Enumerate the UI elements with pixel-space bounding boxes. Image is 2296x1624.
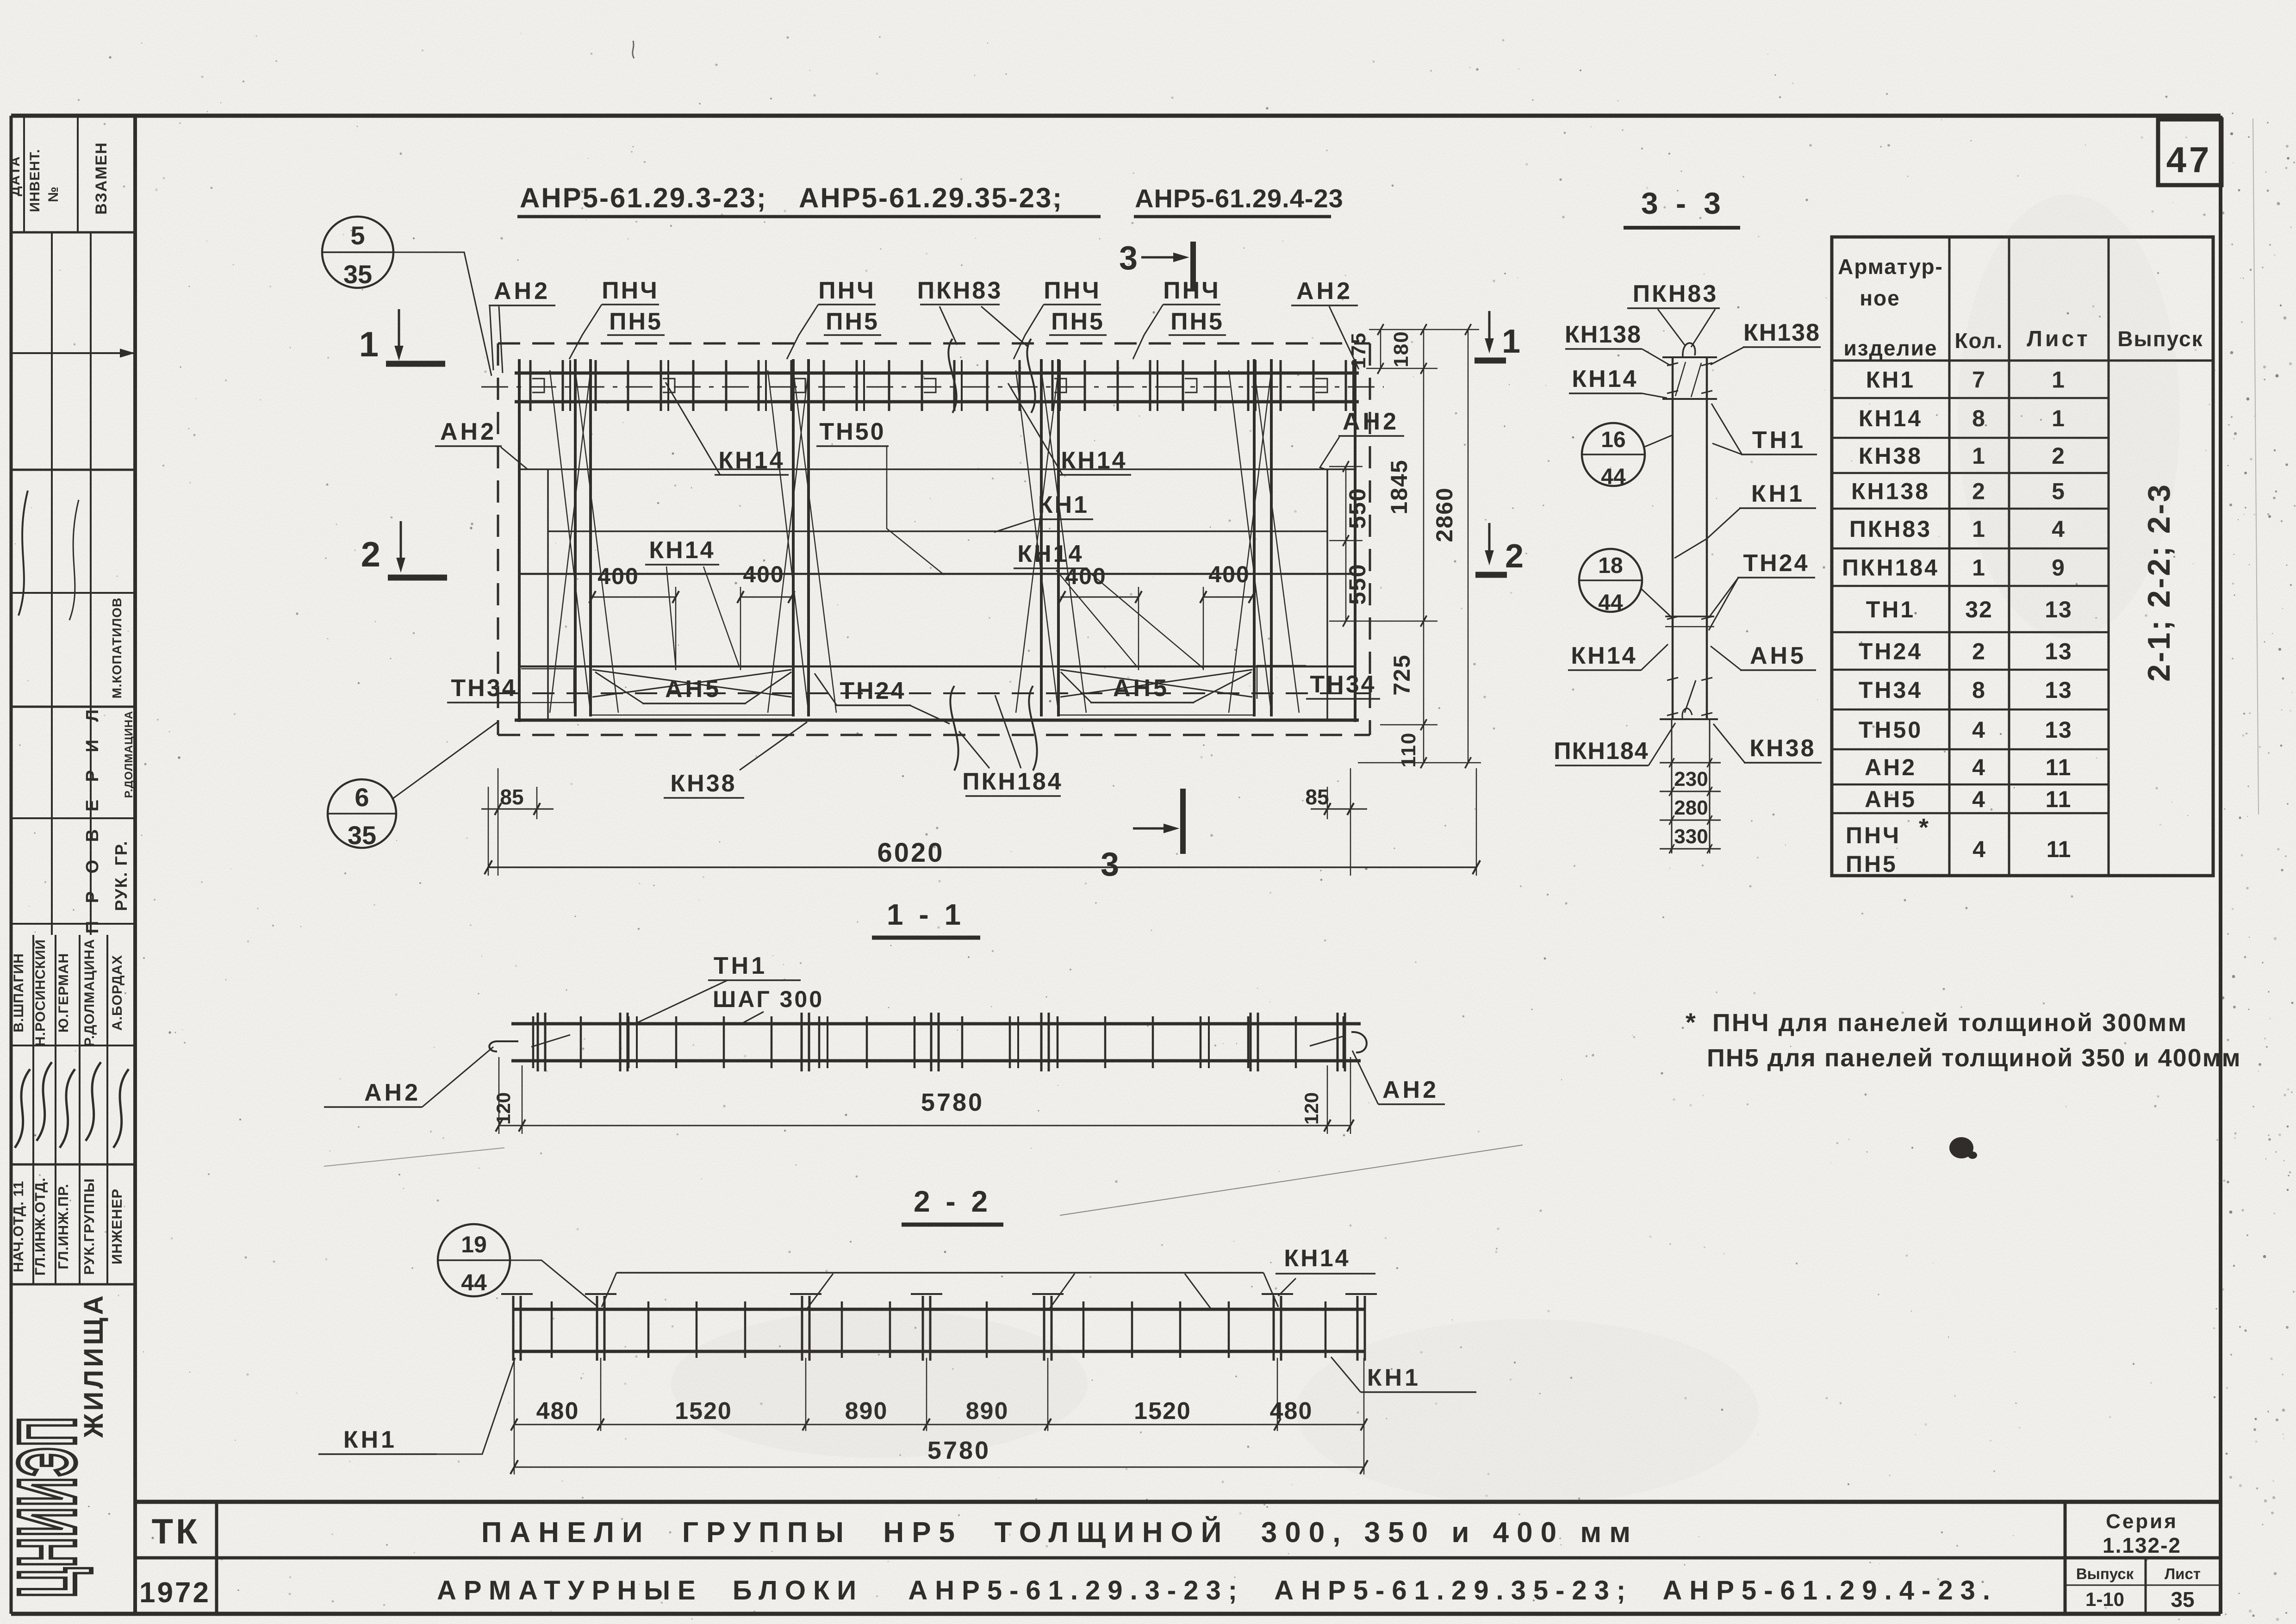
- 3-3 small side ticks: [1667, 363, 1678, 366]
- dim 6020: [488, 866, 1476, 868]
- right margin thin bar: [1326, 469, 1328, 720]
- table column lines: [1948, 237, 1951, 876]
- sheet frame right border: [2219, 116, 2222, 1614]
- 2-2 dim row 1: [514, 1358, 515, 1431]
- callout 5/35 leader: [394, 252, 492, 376]
- 3-3 callout circle 16/44: [1582, 423, 1645, 486]
- 1-1 rails: [511, 1022, 1361, 1026]
- 1-1 dims: [498, 1057, 500, 1134]
- title block serial cell divider: [2064, 1502, 2067, 1614]
- 2-2 roof line KN14: [616, 1272, 1263, 1274]
- callout circle 5/35: [322, 217, 393, 288]
- plan horizontal chord y1240: [519, 573, 1355, 575]
- callout 6/35 leader: [392, 721, 499, 799]
- sidebar header dividers: [23, 116, 25, 232]
- gray smudges: [671, 1310, 1088, 1458]
- right dim tick lines: [1369, 329, 1479, 330]
- window mullion left-right pair: [792, 359, 795, 716]
- callout circle 6/35: [328, 779, 396, 848]
- window bottom close line right: [1058, 715, 1254, 716]
- title block vypusk list divider: [2145, 1558, 2147, 1614]
- title block top line: [135, 1500, 2221, 1504]
- sheet frame left outer border: [10, 116, 13, 1614]
- 2-2 dim row 2 5780: [514, 1431, 515, 1475]
- 1-1 right hook: [1351, 1032, 1367, 1052]
- plan dashed line y1498: [498, 692, 1370, 694]
- plan horizontal chord y1148: [548, 530, 1327, 532]
- window mullion left-left pair: [574, 359, 577, 716]
- 3-3 bottom dim ladder: [1671, 720, 1673, 853]
- right dim chain 180-1845-725-110 line: [1423, 330, 1425, 763]
- table outer rect: [1832, 237, 2213, 876]
- top band posts: [529, 360, 532, 411]
- section marker 2 right: [1488, 523, 1491, 558]
- table row lines: [1832, 397, 2109, 399]
- sidebar 5-column dividers for signature block: [32, 935, 34, 1284]
- plan horizontal chord y1014: [519, 468, 1355, 470]
- left margin heavy bar: [518, 359, 521, 722]
- plan horizontal chord y1440: [519, 666, 1355, 668]
- 2-2 double posts with caps: [512, 1296, 515, 1361]
- right margin heavy bar: [1354, 359, 1356, 722]
- panel outline dashed rect bottom: [498, 734, 1370, 736]
- top band upper rail: [515, 372, 1359, 375]
- ink blob artifact: [1949, 1137, 1973, 1158]
- 2-2 callout leader: [509, 1260, 598, 1307]
- content frame left border: [133, 116, 137, 1614]
- mullion brace diagonals: [575, 370, 618, 713]
- sheet number box 47: [2158, 119, 2221, 185]
- top band axis dash-dot line: [481, 386, 1384, 388]
- 2-2 posts: [551, 1301, 553, 1358]
- panel outline dashed rect top: [498, 342, 1370, 345]
- heading underline 2: [1134, 215, 1331, 218]
- window mullion right-right pair: [1253, 359, 1256, 716]
- scratch line artifact top right of 2-2: [1060, 1145, 1523, 1215]
- 3-3 bottom hooks: [1685, 680, 1696, 713]
- sidebar arrow at row line: [120, 349, 133, 357]
- 3-3 hatch top cell: [1675, 362, 1686, 396]
- section marker 1 right: [1488, 311, 1491, 346]
- sidebar mid column dividers: [51, 232, 53, 935]
- right dim 175 line: [1380, 330, 1381, 368]
- left margin thin bar: [547, 469, 549, 720]
- 2-2 rails: [514, 1308, 1364, 1311]
- 3-3 column right line: [1706, 357, 1708, 720]
- panel outline dashed left: [497, 343, 499, 735]
- plan bottom heavy chord: [515, 719, 1359, 722]
- small mark top: [633, 41, 634, 58]
- title block serial inner line: [2065, 1585, 2221, 1586]
- paper edge faint line right: [2253, 118, 2259, 815]
- window bottom close line left: [591, 715, 793, 716]
- title block TK divider: [215, 1502, 218, 1614]
- sidebar upper scribbles: [19, 491, 28, 616]
- 3-3 column caps: [1662, 356, 1717, 358]
- panel outline dashed right: [1369, 343, 1371, 735]
- paper noise overlay: [0, 0, 0, 0]
- squiggle break marks top band: [948, 339, 956, 413]
- 1-1 end double posts: [537, 1013, 539, 1071]
- right dim chain 2860 line: [1468, 330, 1469, 763]
- squiggle break marks bottom band: [950, 686, 958, 771]
- top band lower rail: [515, 400, 1359, 404]
- heading underline 1: [517, 215, 1101, 218]
- sidebar signatures scribbles: [15, 1069, 30, 1148]
- window X-cross left: [592, 670, 791, 697]
- sheet frame top border: [11, 114, 2221, 118]
- sidebar horizontal lines: [11, 231, 135, 234]
- top band staples: [532, 379, 544, 392]
- window mullion right-left pair: [1040, 359, 1043, 716]
- table header bottom line: [1832, 360, 2213, 362]
- 3-3 column left line: [1672, 357, 1674, 720]
- title block mid line: [135, 1556, 2221, 1560]
- 2-2 callout circle 19/44: [438, 1224, 510, 1296]
- window X-cross right: [1060, 670, 1252, 697]
- right dim chain 550 line: [1345, 467, 1347, 621]
- scan speckle dots: [1469, 67, 1471, 68]
- 1-1 posts: [532, 1016, 535, 1068]
- 3-3 top hook: [1683, 343, 1695, 356]
- sheet frame bottom border: [11, 1612, 2221, 1616]
- 3-3 callout circle 18/44: [1579, 549, 1642, 612]
- 1-1 left hook: [489, 1041, 518, 1052]
